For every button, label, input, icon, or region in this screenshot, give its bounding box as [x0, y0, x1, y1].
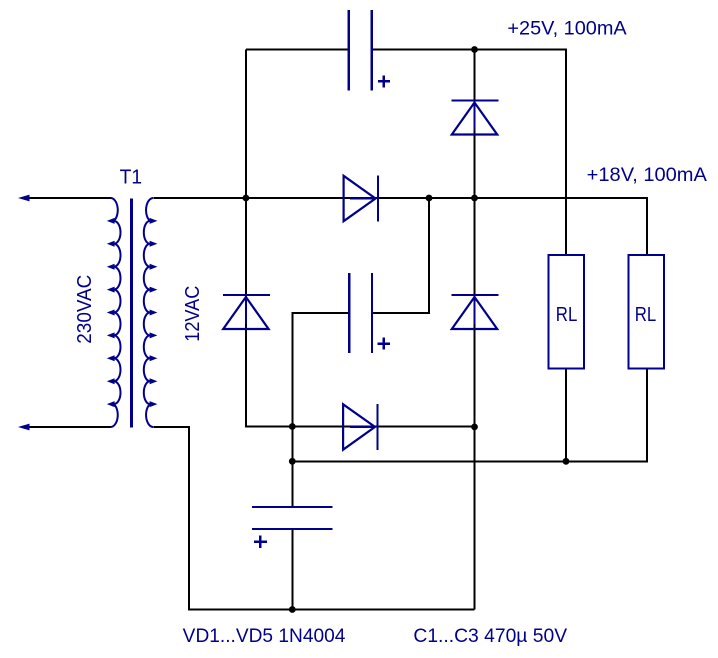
node ground rail junction [289, 606, 296, 613]
wire left branch vertical with corner to node B [246, 50, 293, 427]
wire bottom return to transformer [154, 427, 475, 610]
node C2 top junction [426, 195, 433, 202]
wire 12VAC top rail to +18V drop [154, 198, 648, 255]
transformer T1 secondary winding [144, 198, 153, 427]
transformer T1 primary cusp nubs [107, 218, 115, 407]
node bottom diode junction [471, 424, 478, 431]
svg-text:C1...C3 470µ 50V: C1...C3 470µ 50V [413, 626, 567, 647]
svg-text:+25V, 100mA: +25V, 100mA [507, 19, 627, 40]
transformer T1 core [130, 199, 133, 428]
capacitor C1 plus sign [378, 76, 390, 88]
svg-text:RL: RL [556, 304, 578, 326]
wire C2 left lead [292, 313, 349, 427]
capacitor C2 plus sign [378, 338, 390, 350]
diode VD4 middle horizontal [344, 176, 378, 222]
node lower rail left junction [289, 458, 296, 465]
wire C3 vertical upper [291, 427, 293, 507]
svg-text:230VAC: 230VAC [74, 275, 96, 344]
diode VD1 top vertical [452, 101, 499, 135]
wire center vertical [474, 50, 476, 610]
node top junction [471, 46, 478, 53]
wire lower rail to RL2 bottom [292, 368, 647, 461]
diode VD2 middle vertical [452, 295, 499, 329]
node B junction [289, 423, 296, 430]
capacitor C2 plates [349, 273, 372, 353]
svg-text:12VAC: 12VAC [182, 286, 204, 342]
arrow primary top [18, 195, 30, 202]
node lower rail RL1 junction [563, 458, 570, 465]
wire top rail left of C1 [246, 49, 349, 51]
wire C2 right lead [372, 198, 429, 313]
wire primary bottom lead [28, 426, 111, 428]
wire primary top lead [28, 197, 111, 199]
resistor RL1 [549, 255, 585, 368]
wire C3 vertical lower [291, 529, 293, 609]
wire top rail right of C1 to RL1 drop [372, 50, 566, 256]
arrow primary bottom [18, 424, 30, 431]
transformer T1 primary winding [111, 198, 121, 427]
capacitor C3 plates [252, 507, 333, 529]
node secondary top junction [243, 195, 250, 202]
resistor RL2 [628, 255, 664, 368]
svg-text:+18V, 100mA: +18V, 100mA [587, 165, 708, 186]
capacitor C1 plates [349, 10, 372, 91]
svg-text:RL: RL [635, 304, 657, 326]
diode VD3 left vertical [223, 295, 270, 329]
diode VD5 bottom horizontal [343, 404, 377, 450]
wire bottom diode row [246, 426, 475, 428]
capacitor C3 plus sign [254, 536, 267, 548]
svg-text:T1: T1 [120, 167, 142, 189]
svg-text:VD1...VD5 1N4004: VD1...VD5 1N4004 [183, 626, 346, 647]
transformer T1 secondary cusp nubs [150, 218, 158, 407]
node +18V junction [471, 195, 478, 202]
wire RL1 bottom [565, 368, 567, 461]
